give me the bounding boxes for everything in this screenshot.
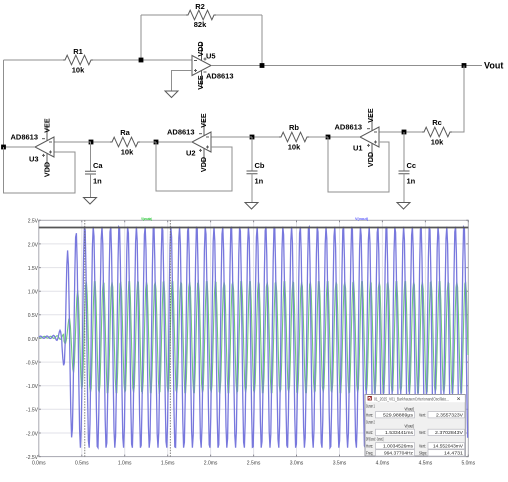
svg-text:-1.0V: -1.0V [26, 384, 39, 390]
svg-text:Slope:: Slope: [419, 451, 427, 456]
cursor results window [365, 395, 465, 457]
svg-text:82k: 82k [194, 20, 207, 29]
svg-text:AD8613: AD8613 [335, 123, 363, 132]
grid lines [39, 220, 469, 456]
cursor 2 vertical [169, 220, 171, 456]
svg-text:VEE: VEE [42, 118, 51, 133]
wire R2 left vertical [140, 15, 142, 60]
svg-text:AD8613: AD8613 [167, 128, 195, 137]
svg-text:1n: 1n [255, 177, 264, 186]
wire Rb row [309, 136, 328, 138]
wire U1 feedback box [328, 137, 389, 192]
svg-text:VEE: VEE [366, 108, 375, 123]
svg-text:Horz:: Horz: [366, 444, 373, 449]
node junction U3 out [1, 145, 6, 150]
svg-text:4.5ms: 4.5ms [419, 461, 433, 467]
svg-text:529.98889µs: 529.98889µs [383, 412, 413, 417]
ground Cc [397, 203, 410, 210]
svg-text:3.5ms: 3.5ms [333, 461, 347, 467]
wire R2 right vertical [261, 15, 263, 66]
svg-text:01_2025_V01_BarkhausenCriterio: 01_2025_V01_BarkhausenCriterionandOscill… [374, 396, 449, 401]
svg-text:0.5V: 0.5V [28, 313, 39, 319]
svg-text:Cursor 2: Cursor 2 [366, 419, 375, 424]
svg-text:1.5ms: 1.5ms [161, 461, 175, 467]
ground U5 [165, 91, 178, 98]
svg-text:Vert:: Vert: [419, 430, 426, 435]
svg-text:14.552043mV: 14.552043mV [433, 444, 463, 449]
svg-text:R2: R2 [195, 2, 205, 11]
svg-text:1.0V: 1.0V [28, 290, 39, 296]
resistor Ra [110, 128, 140, 157]
svg-text:Freq:: Freq: [366, 451, 373, 456]
svg-text:3.0ms: 3.0ms [290, 461, 304, 467]
svg-text:0.0V: 0.0V [28, 337, 39, 343]
svg-text:10k: 10k [288, 143, 301, 152]
svg-text:0.0ms: 0.0ms [32, 461, 46, 467]
svg-text:AD8613: AD8613 [206, 72, 234, 81]
svg-text:Cb: Cb [255, 161, 265, 170]
window icon [368, 397, 371, 401]
svg-text:AD8613: AD8613 [11, 133, 39, 142]
resistor Rc [422, 118, 452, 147]
svg-text:2.5V: 2.5V [28, 219, 39, 225]
svg-text:0.5ms: 0.5ms [75, 461, 89, 467]
svg-text:Vert:: Vert: [419, 444, 426, 449]
node junction R1/R2 [139, 58, 144, 63]
svg-text:-0.5V: -0.5V [26, 361, 39, 367]
wire U2 feedback box [156, 142, 232, 191]
ground Ca [84, 198, 97, 205]
svg-text:Cc: Cc [407, 161, 417, 170]
svg-text:VDD: VDD [199, 157, 208, 172]
resistor Rb [279, 123, 309, 152]
wire Ra row [140, 141, 156, 143]
op-amp U2 AD8613 [167, 120, 211, 165]
svg-text:2.3702843V: 2.3702843V [435, 430, 463, 435]
svg-text:2.0ms: 2.0ms [204, 461, 218, 467]
wire U3 feedback box [4, 147, 76, 193]
node junction b [250, 135, 255, 140]
axis ticks [39, 220, 469, 456]
wire U3 minus input [55, 141, 92, 143]
capacitor Cc [399, 132, 417, 203]
cursor 1 vertical [84, 220, 86, 456]
svg-text:Horz:: Horz: [366, 413, 373, 418]
svg-text:10k: 10k [72, 66, 85, 75]
wire U2 minus input [211, 136, 252, 138]
svg-text:994.37704Hz: 994.37704Hz [384, 451, 413, 456]
wire U3 output [4, 146, 36, 148]
svg-text:U2: U2 [186, 149, 196, 158]
op-amp U3 AD8613 [11, 125, 55, 170]
wire U2 output [156, 141, 192, 143]
svg-text:✕: ✕ [457, 396, 461, 402]
svg-text:5.0ms: 5.0ms [461, 461, 475, 467]
svg-text:VDD: VDD [42, 162, 51, 177]
capacitor Ca [85, 142, 103, 198]
svg-text:V(vouta): V(vouta) [141, 216, 152, 221]
svg-text:1.533441ms: 1.533441ms [385, 430, 413, 435]
svg-text:U5: U5 [206, 52, 216, 61]
capacitor Cb [247, 137, 265, 203]
wire U1 output [328, 136, 360, 138]
node junction a [89, 140, 94, 145]
svg-text:U1: U1 [353, 144, 363, 153]
node junction U2 out [154, 140, 159, 145]
trace V(vouta) green [39, 282, 468, 393]
node junction U1 out [326, 135, 331, 140]
svg-text:Vert:: Vert: [419, 413, 426, 418]
svg-text:2.0V: 2.0V [28, 242, 39, 248]
waveform plot frame [39, 220, 469, 456]
svg-text:Vout: Vout [484, 61, 503, 71]
svg-text:Horz:: Horz: [366, 430, 373, 435]
svg-text:VDD: VDD [366, 152, 375, 167]
svg-text:Rb: Rb [289, 123, 299, 132]
svg-text:-2.0V: -2.0V [26, 431, 39, 437]
svg-text:R1: R1 [73, 47, 83, 56]
svg-text:1.0ms: 1.0ms [118, 461, 132, 467]
resistor R2 [186, 2, 216, 29]
svg-text:4.0ms: 4.0ms [376, 461, 390, 467]
svg-text:1n: 1n [93, 177, 102, 186]
svg-text:2.5ms: 2.5ms [247, 461, 261, 467]
svg-text:10k: 10k [121, 148, 134, 157]
svg-text:U3: U3 [29, 155, 39, 164]
svg-text:1n: 1n [407, 177, 416, 186]
svg-text:VEE: VEE [196, 75, 205, 90]
cursor horizontal [39, 226, 469, 229]
op-amp U1 AD8613 [335, 115, 380, 160]
node junction Vout [462, 63, 467, 68]
svg-text:Cursor 1: Cursor 1 [366, 403, 375, 408]
wire R2 top rail [141, 14, 186, 16]
wire U5 output rail [211, 65, 482, 67]
resistor R1 [63, 47, 93, 75]
svg-text:V(vout): V(vout) [405, 406, 415, 411]
svg-text:10k: 10k [431, 138, 444, 147]
wire input row [4, 59, 64, 61]
svg-text:VEE: VEE [199, 113, 208, 128]
svg-text:Ca: Ca [93, 161, 103, 170]
svg-text:1.5V: 1.5V [28, 266, 39, 272]
trace V(vout) blue [39, 227, 468, 448]
svg-text:Ra: Ra [120, 128, 130, 137]
node junction c [402, 130, 407, 135]
svg-text:1.0034526ms: 1.0034526ms [383, 444, 413, 449]
svg-text:-1.5V: -1.5V [26, 408, 39, 414]
wire Vout down to Rc [452, 66, 464, 133]
svg-text:2.3557323V: 2.3557323V [436, 412, 463, 417]
svg-text:Rc: Rc [432, 118, 442, 127]
svg-text:V(vout): V(vout) [405, 423, 415, 428]
svg-text:V(vout): V(vout) [355, 216, 369, 221]
wire U5 plus input to ground [172, 71, 193, 92]
wire Rc to node c [379, 131, 422, 133]
svg-text:14.4731: 14.4731 [444, 451, 464, 456]
svg-text:Diff (Cursor2 - Cursor1): Diff (Cursor2 - Cursor1) [366, 437, 384, 442]
op-amp U5 AD8613 [192, 43, 234, 89]
svg-text:VDD: VDD [196, 41, 205, 56]
wire left feedback vertical [3, 60, 5, 147]
ground Cb [245, 203, 258, 210]
node junction output/R2 [260, 63, 265, 68]
